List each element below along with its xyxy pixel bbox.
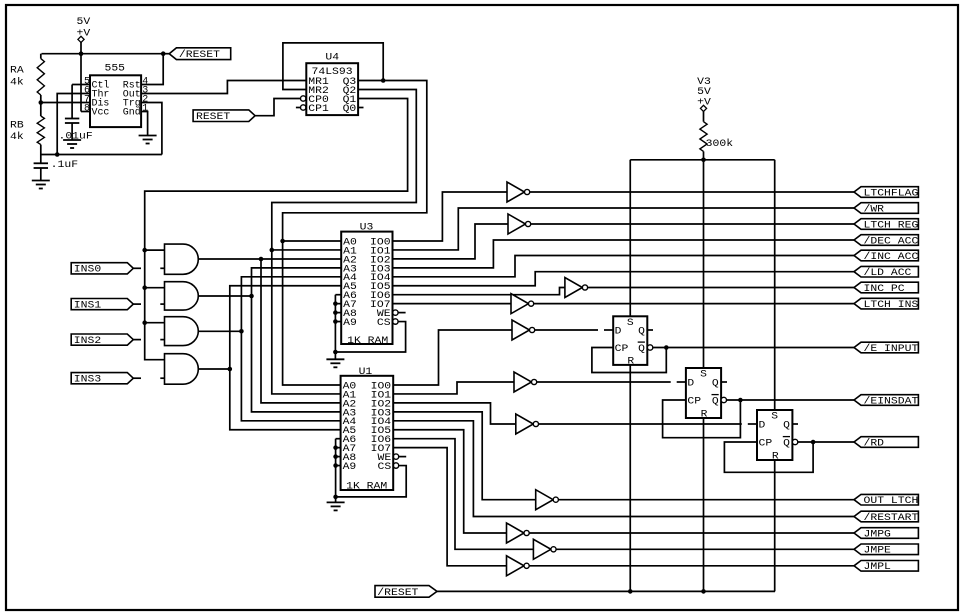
svg-text:INS1: INS1 xyxy=(74,301,101,312)
svg-text:OUT LTCH: OUT LTCH xyxy=(864,496,919,507)
svg-text:Q: Q xyxy=(783,438,790,449)
svg-text:/RD: /RD xyxy=(864,437,885,449)
svg-text:D: D xyxy=(687,378,694,389)
svg-text:/RESET: /RESET xyxy=(377,587,418,599)
svg-text:Q: Q xyxy=(712,396,719,407)
svg-text:CS: CS xyxy=(377,318,391,329)
svg-text:555: 555 xyxy=(105,64,126,75)
svg-text:RB: RB xyxy=(10,121,24,132)
svg-text:5V: 5V xyxy=(77,17,91,28)
svg-text:4k: 4k xyxy=(10,76,24,88)
svg-text:/DEC ACC: /DEC ACC xyxy=(864,235,919,247)
svg-text:CP: CP xyxy=(615,344,629,355)
svg-text:JMPG: JMPG xyxy=(864,529,891,540)
svg-text:1K RAM: 1K RAM xyxy=(347,336,388,347)
svg-text:CP1: CP1 xyxy=(308,104,329,115)
svg-text:LTCHFLAG: LTCHFLAG xyxy=(864,188,919,199)
svg-text:INS2: INS2 xyxy=(74,336,101,347)
svg-text:LTCH INS: LTCH INS xyxy=(864,300,919,311)
svg-text:D: D xyxy=(759,420,766,431)
svg-text:300k: 300k xyxy=(706,138,733,150)
svg-text:A9: A9 xyxy=(343,318,357,329)
svg-text:CS: CS xyxy=(378,462,392,473)
svg-text:INS0: INS0 xyxy=(74,265,101,276)
svg-text:/RESET: /RESET xyxy=(179,49,220,61)
svg-text:/EINSDAT: /EINSDAT xyxy=(864,395,919,407)
svg-text:INC PC: INC PC xyxy=(864,284,905,295)
svg-text:S: S xyxy=(700,370,707,381)
svg-text:INS3: INS3 xyxy=(74,375,101,386)
svg-text:Q: Q xyxy=(638,326,645,337)
svg-text:.1uF: .1uF xyxy=(51,160,78,171)
svg-text:1: 1 xyxy=(142,104,148,115)
svg-text:JMPE: JMPE xyxy=(864,546,891,557)
svg-text:5V: 5V xyxy=(697,87,711,98)
svg-text:/LD ACC: /LD ACC xyxy=(864,267,912,279)
svg-text:U1: U1 xyxy=(359,367,373,378)
svg-text:1K RAM: 1K RAM xyxy=(346,482,387,493)
svg-text:S: S xyxy=(627,318,634,329)
svg-text:Vcc: Vcc xyxy=(92,108,110,119)
svg-text:Q: Q xyxy=(638,344,645,355)
svg-text:Q: Q xyxy=(712,378,719,389)
svg-text:+V: +V xyxy=(697,98,711,109)
svg-text:8: 8 xyxy=(84,104,90,115)
svg-text:/WR: /WR xyxy=(864,203,885,215)
svg-text:S: S xyxy=(771,412,778,423)
svg-text:.01uF: .01uF xyxy=(59,132,93,143)
svg-text:Gnd: Gnd xyxy=(123,107,141,119)
svg-text:A9: A9 xyxy=(343,462,357,473)
svg-text:Q0: Q0 xyxy=(343,104,357,115)
svg-text:CP: CP xyxy=(687,396,701,407)
svg-text:RESET: RESET xyxy=(196,112,230,123)
svg-text:CP: CP xyxy=(759,438,773,449)
svg-text:JMPL: JMPL xyxy=(864,562,891,573)
svg-text:/INC ACC: /INC ACC xyxy=(864,251,919,263)
svg-text:Q: Q xyxy=(783,420,790,431)
svg-text:LTCH REG: LTCH REG xyxy=(864,220,919,231)
svg-text:/RESTART: /RESTART xyxy=(864,512,919,524)
svg-text:/E INPUT: /E INPUT xyxy=(864,343,919,355)
svg-text:+V: +V xyxy=(77,29,91,40)
svg-text:4k: 4k xyxy=(10,131,24,143)
svg-text:U3: U3 xyxy=(360,223,374,234)
svg-text:RA: RA xyxy=(10,66,24,77)
svg-text:D: D xyxy=(615,326,622,337)
svg-text:U4: U4 xyxy=(325,53,339,64)
